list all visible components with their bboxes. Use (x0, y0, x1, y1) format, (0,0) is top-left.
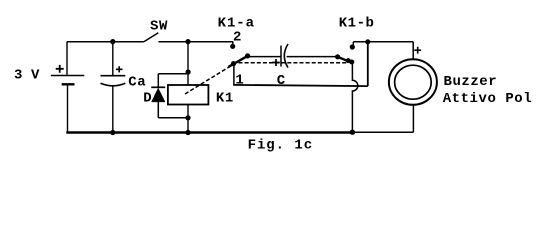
wire capacitor C to K1-b (287, 56, 338, 58)
svg-text:D: D (143, 91, 152, 107)
node junction dot right rail (365, 39, 370, 44)
relay contact K1-b armature (335, 54, 354, 64)
wire K1-b arm down with hop over (352, 61, 357, 132)
wire K1-a arm to capacitor C (248, 56, 281, 58)
wire bottom rail thick (66, 131, 353, 134)
svg-text:Buzzer: Buzzer (444, 74, 498, 90)
svg-text:3 V: 3 V (14, 68, 40, 84)
node junction dot diode top (186, 69, 191, 74)
relay contact K1-a armature (228, 53, 250, 67)
svg-text:Ca: Ca (128, 75, 146, 91)
node junction dot Ca top (110, 39, 115, 44)
wire K1-a pivot down (233, 64, 235, 86)
capacitor Ca electrolytic (101, 42, 126, 133)
svg-text:Fig. 1c: Fig. 1c (248, 137, 313, 153)
svg-text:1: 1 (235, 72, 244, 88)
capacitor C electrolytic (272, 44, 288, 68)
switch SW (144, 33, 233, 42)
svg-text:Attivo Pol: Attivo Pol (443, 91, 533, 107)
node junction dot Ca bottom (110, 130, 115, 135)
wire diode bottom jog (158, 117, 188, 119)
node junction dot relay bottom (185, 130, 190, 135)
wire top rail left: battery to switch (67, 41, 144, 43)
svg-text:2: 2 (233, 29, 242, 45)
wire diode top jog (158, 73, 188, 75)
buzzer BZ1 (389, 59, 437, 105)
svg-text:K1: K1 (216, 91, 234, 107)
relay contact K1-b fixed contact (350, 42, 355, 50)
relay coil K1 (168, 85, 209, 133)
wire middle horizontal to right rail (233, 42, 368, 86)
battery BT1 3V (51, 42, 84, 133)
node junction dot switch/relay (185, 39, 190, 44)
label buzzer plus (414, 47, 421, 54)
svg-text:K1-b: K1-b (339, 15, 375, 31)
dashed mechanical link K1-a to K1-b (239, 62, 348, 64)
diode D (151, 74, 165, 118)
wire top rail right to buzzer (353, 42, 413, 59)
svg-text:C: C (277, 73, 286, 89)
wire relay branch vertical (187, 42, 189, 85)
svg-text:SW: SW (150, 18, 168, 34)
dashed mechanical link coil to K1-a (185, 66, 232, 95)
node junction dot K1-b bottom rail (350, 130, 355, 135)
relay contact K1-a fixed contact 2 (230, 42, 235, 49)
node junction dot diode bottom (185, 115, 190, 120)
wire bottom rail thin to buzzer (353, 105, 414, 132)
